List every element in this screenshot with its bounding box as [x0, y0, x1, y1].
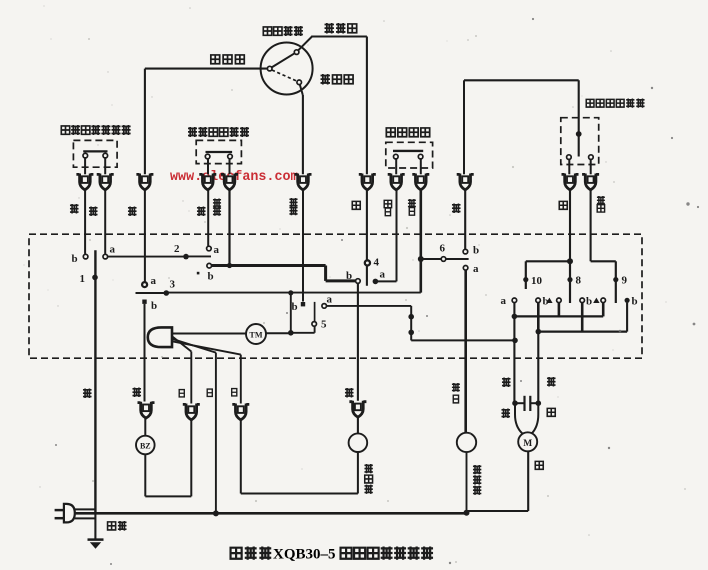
junction capacitor right [536, 400, 542, 406]
wire label 黑 left [83, 389, 92, 399]
wire 10 column down [525, 261, 527, 289]
connector 棕2 [457, 174, 474, 190]
junction TM output [288, 330, 294, 336]
wire a4 to 红白 column [375, 280, 396, 282]
svg-text:b: b [208, 271, 214, 283]
contact in no-drain box left [83, 153, 88, 158]
timer cam body [148, 327, 172, 347]
wire from water-flow right contact down [590, 159, 592, 174]
wire 浅蓝 down to thick rail [228, 191, 230, 265]
svg-text:5: 5 [321, 319, 327, 331]
wire label 线 [70, 204, 79, 214]
switch bar in safety box [393, 150, 423, 152]
wire label 红 [352, 201, 360, 209]
svg-text:9: 9 [622, 275, 628, 287]
drain solenoid body [457, 433, 476, 452]
wire label 蓝红 [597, 196, 605, 212]
wire label 橙 [132, 388, 141, 398]
wire label 紫 [197, 207, 206, 217]
wire label 白 1 [179, 390, 184, 397]
wire top link left down to brown2 connector [463, 80, 465, 174]
svg-text:TM: TM [249, 331, 262, 340]
selector box water-flow-mode [561, 118, 599, 165]
contact a of switch 10 [512, 298, 517, 303]
contact circle switch 4 [365, 260, 370, 265]
wire motor left column [513, 316, 515, 403]
contact a of switch 8 [557, 298, 562, 303]
wire cap left [515, 402, 524, 404]
motor lead-in funnel left [515, 403, 523, 433]
contact in safety box right [418, 154, 423, 159]
wire a-rail down [410, 306, 412, 341]
connector 紫 [199, 174, 216, 190]
svg-text:a: a [151, 275, 157, 287]
wire 蓝 down to contact a1 [104, 191, 106, 254]
wire label 重 [502, 378, 511, 388]
wire a8 down to bus1 [558, 303, 561, 317]
wire buzzer L right [145, 495, 191, 497]
svg-text:a: a [327, 294, 333, 306]
connector 浅蓝 [221, 174, 238, 190]
plug prong lower [55, 517, 65, 520]
bus2 horizontal [538, 331, 627, 333]
junction dot switch 3 [164, 290, 170, 296]
ground symbol [88, 540, 104, 549]
wire connector to buzzer [144, 419, 146, 436]
contact b of switch 8 [580, 298, 585, 303]
cam fan wire 4 diagonal [172, 341, 241, 354]
junction motor-left at a-rail [512, 338, 518, 344]
connector 浅棕 [295, 174, 312, 190]
bus1 horizontal [514, 315, 603, 317]
rotary switch arm to NC [272, 53, 295, 67]
wire junction to switch5 L vertical [314, 326, 316, 333]
svg-text:BZ: BZ [140, 442, 151, 451]
rail 3 horizontal [166, 292, 420, 294]
junction in water-flow box [576, 131, 582, 137]
cam fan wire 3 down to bus [215, 353, 217, 514]
contact arrow mark a of switch 9 [593, 298, 599, 303]
wire cam to TM [173, 333, 246, 335]
wire white2 down [190, 421, 192, 497]
selector box safety switch [386, 142, 433, 168]
svg-text:b: b [151, 300, 157, 312]
cam fan wire 4 down to connector [240, 355, 242, 404]
wire white3 right to valve [241, 493, 358, 495]
switch 1 moving arm (black wire) [94, 250, 96, 513]
connector 红白 [388, 174, 405, 190]
junction 浅蓝 on rail [227, 263, 232, 268]
connector 蓝红 [582, 174, 599, 190]
contact a of switch 1 [103, 254, 108, 259]
connector 蓝 [97, 174, 114, 190]
connector 棕 [136, 174, 153, 190]
cam fan wire 2 diagonal [172, 336, 191, 351]
wire label 紫 motor [547, 377, 556, 387]
wire top rail left to 10 [526, 260, 570, 262]
wire 棕2 down to contact b6 [464, 191, 466, 250]
svg-text:a: a [501, 295, 507, 307]
wire buzzer down [144, 454, 146, 496]
connector 灰 [562, 174, 579, 190]
svg-text:b: b [632, 296, 638, 308]
contact a of switch 5 [322, 304, 327, 309]
plug cord lower wire [75, 517, 96, 519]
wire contact b3 down to connector [144, 304, 146, 402]
wire TM to junction [266, 332, 291, 334]
label 电磁铁 vertical [473, 465, 481, 495]
timer unit dashed boundary [29, 234, 642, 358]
wire rail a1 to dot 2 [108, 256, 186, 258]
wire 蓝红 down [590, 191, 592, 262]
contact 10 [523, 277, 528, 282]
contact circle switch 5 [312, 322, 317, 327]
motor M body [518, 432, 537, 451]
junction bus at white3 [213, 510, 219, 516]
wire label 棕 right [452, 204, 461, 214]
contact b of switch 5 (filled) [301, 302, 305, 306]
wire lamp branch vertical [290, 293, 292, 333]
svg-text:6: 6 [440, 243, 446, 255]
contact a of switch 3 [142, 282, 147, 287]
contact b of switch 10 [536, 298, 541, 303]
svg-text:10: 10 [531, 275, 543, 287]
wire 红白 column up [396, 191, 398, 282]
connector 红 [359, 174, 376, 190]
capacitor plate right [529, 396, 531, 411]
junction on a-rail drop upper [408, 314, 414, 320]
wire a10 down to bus1 [513, 303, 515, 317]
svg-text:M: M [523, 439, 532, 449]
cam fan wire 2 down to connector [190, 352, 192, 404]
wire label 棕 [128, 207, 137, 217]
wire valve down [357, 452, 359, 494]
wire motor right column [537, 332, 539, 404]
wire NO down to connector [302, 95, 304, 174]
wire from rinse left contact down [207, 159, 209, 175]
wire b9 down to bus2 [626, 303, 628, 332]
timer motor TM body [246, 324, 266, 344]
contact circle switch 6 [441, 257, 446, 262]
wire 蓝白 down [419, 191, 422, 293]
wire label 蓝 [89, 207, 98, 217]
connector 白3 bottom [232, 404, 249, 420]
wire label 烫白 [452, 383, 460, 403]
contact b below switch 3 (filled) [142, 300, 146, 304]
svg-text:b: b [292, 301, 298, 313]
connector 白 bottom [183, 404, 200, 420]
svg-text:b: b [72, 253, 78, 265]
wire label 白 2 [207, 389, 212, 396]
svg-text:a: a [380, 269, 386, 281]
wire NC horizontal [311, 35, 367, 37]
title 金羚牌XQB30-5型全自动洗衣机 [231, 547, 433, 563]
contact 9 [613, 277, 618, 282]
wire common down to brown connector [144, 69, 146, 175]
wire a-rail bottom to motor column [411, 339, 515, 341]
switch 5 arm [314, 302, 316, 322]
connector 桃/线 [76, 174, 93, 190]
contact in no-drain box right [103, 153, 108, 158]
wire label 黄 [535, 461, 543, 469]
contact a of switch 4 [373, 279, 379, 285]
svg-text:4: 4 [374, 257, 380, 269]
motor lead-in funnel right [532, 403, 539, 433]
svg-text:8: 8 [576, 275, 582, 287]
wire 紫 down to contact a2 [207, 191, 209, 247]
small scan mark near contact b2 [197, 272, 200, 275]
wire label 黄绿 [108, 521, 127, 531]
label 常开点 (NO point) [321, 74, 354, 85]
label 洗水阀 vertical [364, 464, 372, 494]
contact b of switch 9 [625, 298, 630, 303]
connector 黑 bottom [349, 401, 366, 417]
capacitor plate left [523, 396, 525, 411]
wire 棕 down through rail [144, 191, 146, 283]
thick rail from b2 [211, 264, 325, 267]
contact a of switch 6 [463, 266, 468, 271]
switch 2 rail end [186, 255, 211, 257]
label 不排水停机选择 [61, 125, 130, 135]
label 水位选择 (water level select) [263, 26, 303, 36]
svg-text:3: 3 [170, 279, 176, 291]
svg-text:a: a [214, 244, 220, 256]
label 常闭点 (NC point) [325, 23, 357, 34]
contact circle feeding drain valve [356, 279, 361, 284]
wire from rinse right contact down [229, 159, 231, 175]
svg-text:b: b [473, 245, 479, 257]
buzzer BZ body [136, 436, 155, 455]
wire from no-drain left contact down [84, 158, 86, 174]
selector box no-drain-stop [73, 140, 117, 167]
wire label 浅棕 [289, 198, 297, 215]
plug prong upper [55, 509, 65, 512]
thick rail step down [324, 266, 327, 281]
svg-text:b: b [586, 296, 592, 308]
wire solenoid to bus [466, 452, 468, 513]
rotary switch common contact [267, 66, 272, 71]
junction 灰 top rail [567, 258, 573, 264]
contact in safety box left [394, 154, 399, 159]
wire cap right [531, 402, 539, 404]
wire white3 down [240, 421, 242, 494]
wire from no-drain right contact down [104, 158, 106, 174]
svg-text:1: 1 [80, 273, 86, 285]
connector 蓝白 [412, 174, 429, 190]
contact arrow mark a of switch 8 [546, 298, 552, 303]
contact in rinse box right [228, 154, 233, 159]
wire solenoid column lower [465, 359, 467, 433]
wire 浅棕 down to contact b5 [302, 191, 304, 302]
rotary switch dashed arm to NO [272, 70, 297, 81]
wire top link horizontal [464, 79, 579, 81]
wire into water-flow box [578, 80, 580, 156]
water valve body [349, 433, 368, 452]
wire from safety right contact down [420, 159, 422, 174]
wire label 蓝白 [408, 199, 416, 215]
wire motor to bus [467, 510, 528, 512]
label 漂洗方式选择 [188, 127, 249, 137]
wire b10 down to bus2 [537, 303, 540, 332]
wire b8 down to bus2 [581, 303, 584, 332]
mains bus [75, 512, 467, 515]
svg-text:XQB30–5: XQB30–5 [273, 547, 336, 563]
rotary switch NC contact [294, 50, 299, 55]
rail 3 left stub [136, 292, 167, 294]
junction on a-rail drop lower [408, 330, 414, 336]
junction 蓝白 at rail 6 [418, 256, 424, 262]
wire NC down to red connector [366, 37, 368, 175]
wire from safety left contact down [395, 159, 397, 174]
wire label 灰 [559, 201, 567, 209]
wire label 黑 valve [345, 388, 354, 398]
selector box rinse-mode [196, 140, 241, 163]
svg-text:a: a [473, 263, 479, 275]
junction dot switch 2 [183, 254, 189, 260]
junction bus1 left [512, 314, 518, 320]
label 水流方式选择 [586, 99, 644, 108]
contact in rinse box left [205, 154, 210, 159]
wire common point left [145, 68, 268, 70]
wire 灰 down [569, 191, 571, 262]
contact b of switch 1 [83, 254, 88, 259]
rotary switch S1 body [261, 43, 313, 95]
wire junction to contact 6 [421, 258, 469, 260]
label 安全开关 (safety switch) [386, 128, 429, 137]
svg-text:a: a [110, 244, 116, 256]
ground branch wire [94, 513, 96, 539]
switch bar in no-drain box [83, 150, 107, 152]
wire label 红白 [384, 200, 391, 215]
wire NC exits switch [298, 37, 312, 51]
wire 8 column down [569, 261, 571, 303]
contact b of switch 2 [207, 263, 212, 268]
wire label 蓝 motor [501, 409, 510, 419]
wire from a6 down to solenoid [464, 270, 467, 433]
wire label 白 3 [232, 389, 237, 396]
wire 黑 connector to valve [357, 418, 359, 434]
junction capacitor left [512, 400, 518, 406]
wire a-rail [327, 305, 412, 307]
wire motor down [527, 451, 529, 511]
contact a of switch 9 [601, 298, 606, 303]
contact 8 [567, 277, 572, 282]
wire a9 down to bus1 [602, 303, 605, 317]
svg-text:2: 2 [174, 243, 180, 255]
junction bus2 left [536, 329, 542, 335]
rotary switch NO contact [297, 80, 302, 85]
contact in water-flow box right [589, 155, 594, 160]
junction bus at solenoid [464, 510, 470, 516]
thick rail to contact b3 [326, 279, 356, 282]
wire 红 down through contact 4 [366, 191, 368, 286]
cam fan wire 3 diagonal [172, 339, 216, 353]
wire junction to switch5 L horizontal [291, 332, 315, 334]
wire from water-flow left contact down [568, 159, 570, 174]
contact b of switch 6 [463, 249, 468, 254]
junction on switch 1 arm [92, 275, 98, 281]
contact a of switch 2 [207, 246, 212, 251]
wire 9 column down [615, 261, 617, 303]
junction rail3 to lamp branch [288, 290, 293, 295]
wire label 浅蓝 [213, 199, 221, 216]
mains plug body [64, 504, 75, 523]
svg-text:b: b [346, 270, 352, 282]
wire top rail right to 9 [591, 260, 616, 262]
wire 桃 down to contact b1 [84, 191, 86, 254]
plug cord upper wire [75, 508, 96, 510]
switch bar in rinse box [206, 151, 233, 153]
contact in water-flow box left [567, 155, 572, 160]
wire NO exits switch [300, 85, 303, 96]
connector 橙 bottom [138, 402, 155, 418]
label 公共点 (common point) [211, 55, 244, 64]
wire label 红 motor [547, 408, 555, 416]
wire from contact down to 黑 connector [357, 283, 359, 401]
